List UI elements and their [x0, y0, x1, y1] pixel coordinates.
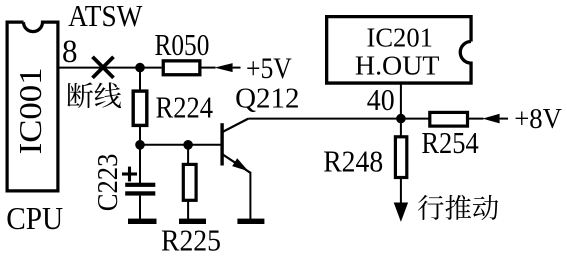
- label xing-tui-dong (line drive): [418, 195, 498, 220]
- capacitor C223 (polarized, plus mark): [122, 167, 155, 196]
- svg-text:R224: R224: [156, 89, 214, 124]
- node junction B: [135, 140, 145, 150]
- break mark X (broken wire): [93, 57, 114, 78]
- wire R050 to arrow: [200, 67, 216, 69]
- wire pin 40: [400, 83, 402, 137]
- svg-text:IC201: IC201: [367, 23, 433, 53]
- svg-text:ATSW: ATSW: [68, 0, 143, 33]
- node junction C: [183, 140, 193, 150]
- label duan-xian (broken wire): [67, 82, 121, 108]
- ground bar (Q212 emitter): [237, 219, 264, 224]
- resistor R050: [163, 61, 200, 75]
- resistor R248: [395, 137, 406, 178]
- wire junction B down to C223: [139, 145, 141, 183]
- svg-text:R225: R225: [161, 223, 221, 256]
- svg-text:8: 8: [62, 34, 78, 70]
- wire junction D to R254: [401, 118, 431, 120]
- svg-text:R254: R254: [421, 125, 479, 160]
- svg-text:R248: R248: [323, 144, 383, 179]
- ground bar (C223): [128, 219, 157, 224]
- node junction D: [396, 114, 406, 124]
- resistor R225: [183, 164, 196, 200]
- svg-text:IC001: IC001: [12, 67, 48, 154]
- wire pin 8 to R050: [60, 67, 162, 69]
- IC IC001 body: [7, 22, 58, 191]
- wire emitter down to ground: [249, 172, 251, 219]
- wire R224 down to junction B: [139, 125, 141, 144]
- svg-text:H.OUT: H.OUT: [355, 51, 440, 81]
- wire R225 down to ground: [187, 200, 189, 219]
- svg-text:+5V: +5V: [246, 52, 292, 85]
- svg-text:Q212: Q212: [235, 82, 299, 114]
- ground bar (R225): [179, 219, 206, 224]
- wire collector bus to pin 40 node: [248, 118, 401, 120]
- wire base bus junction B to Q212 base: [140, 144, 221, 146]
- svg-text:40: 40: [367, 82, 395, 117]
- wire R254 to arrow: [466, 118, 483, 120]
- resistor R224: [133, 91, 147, 125]
- node junction A: [135, 63, 145, 73]
- svg-text:+8V: +8V: [514, 103, 562, 135]
- svg-text:CPU: CPU: [6, 200, 63, 236]
- transistor Q212 (NPN): [220, 119, 250, 173]
- IC IC201 body (H.OUT): [327, 17, 471, 83]
- resistor R254: [430, 112, 468, 126]
- +8V supply arrow: [483, 114, 509, 124]
- wire junction A down to R224: [139, 68, 141, 92]
- wire C223 down to ground: [139, 196, 141, 219]
- signal arrow down (line drive output): [394, 178, 408, 222]
- wire junction C down to R225: [187, 145, 189, 165]
- +5V supply arrow: [215, 63, 241, 72]
- svg-text:R050: R050: [155, 27, 210, 62]
- svg-text:C223: C223: [92, 154, 124, 212]
